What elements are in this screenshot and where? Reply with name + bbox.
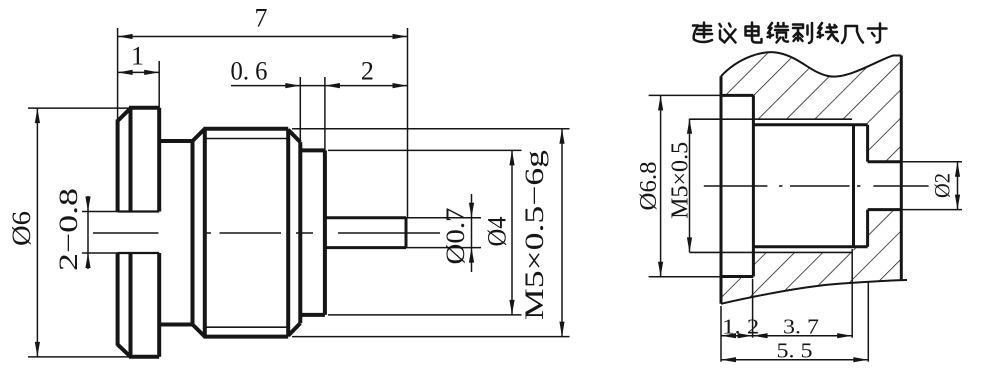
- slot 0.8 through flange: [118, 212, 160, 254]
- svg-text:Ø6.8: Ø6.8: [636, 162, 662, 211]
- svg-text:5. 5: 5. 5: [777, 339, 813, 363]
- dimension M5x0.5: [689, 119, 691, 253]
- chinese title: jian yi dian lan bo xian chi cun: [693, 23, 887, 44]
- dimension phi0.7 pin: [406, 194, 481, 272]
- centerline main axis: [93, 232, 440, 234]
- svg-text:2−0.8: 2−0.8: [54, 188, 83, 271]
- svg-text:2: 2: [361, 57, 374, 86]
- flange outline (phi 6 disc): [118, 108, 160, 357]
- left view dimension texts: [7, 4, 549, 321]
- right view dimension texts: [636, 142, 955, 363]
- svg-text:Ø4: Ø4: [483, 217, 512, 247]
- char chi: [842, 26, 863, 43]
- phi4 step cylinder: [300, 150, 325, 315]
- svg-text:7: 7: [255, 4, 268, 33]
- threaded body M5 outline: [193, 129, 301, 337]
- char jian: [693, 23, 712, 43]
- dimension phi4: [328, 150, 522, 315]
- svg-text:0. 6: 0. 6: [231, 57, 268, 86]
- svg-text:Ø0.7: Ø0.7: [441, 208, 470, 265]
- dimension phi2 conductor: [901, 162, 962, 210]
- dimension phi6.8: [649, 95, 721, 276]
- char lan: [768, 23, 789, 43]
- cable outline thick edges: [721, 56, 901, 304]
- thread minor diameter thin lines: [206, 139, 288, 328]
- thread crest thin lines + M5x0.5 extension: [690, 119, 853, 252]
- dimension 7: [118, 28, 408, 218]
- hatched jacket top region: [721, 52, 901, 161]
- char bo: [793, 23, 812, 43]
- char xian: [818, 23, 839, 41]
- svg-text:1. 2: 1. 2: [722, 315, 759, 339]
- center pin phi 0.7: [325, 218, 406, 248]
- dimension 1: [118, 61, 160, 108]
- svg-text:Ø2: Ø2: [930, 173, 955, 198]
- dimension phi6: [28, 108, 131, 357]
- svg-text:3. 7: 3. 7: [783, 315, 819, 339]
- wavy torn jacket edges: [721, 52, 907, 304]
- svg-text:Ø6: Ø6: [7, 211, 36, 246]
- char cun: [868, 24, 887, 43]
- char yi: [720, 24, 736, 43]
- dimension M5x0.5-6g: [292, 129, 570, 337]
- shoulder face edge: [298, 142, 302, 323]
- svg-text:M5×0.5−6g: M5×0.5−6g: [520, 150, 549, 320]
- svg-text:1: 1: [131, 42, 144, 71]
- svg-text:M5×0.5: M5×0.5: [668, 142, 694, 219]
- bottom dimensions 1.2 / 3.7 / 5.5: [721, 249, 868, 362]
- groove neck between flange and thread: [159, 141, 192, 325]
- hatched jacket bottom region: [721, 210, 901, 304]
- char dian: [746, 23, 762, 43]
- centerline cable axis: [704, 185, 929, 187]
- dimension 0.6 and 2: [231, 77, 408, 150]
- dimension 0.8 slot: [82, 196, 118, 269]
